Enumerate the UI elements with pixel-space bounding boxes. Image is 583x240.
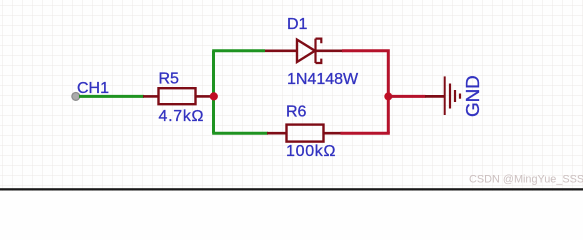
designator D1 — [287, 16, 308, 33]
value 100kΩ — [286, 143, 336, 160]
svg-text:R6: R6 — [286, 104, 307, 121]
node junction right — [384, 92, 392, 100]
designator R5 — [159, 71, 180, 88]
node junction left — [210, 92, 218, 100]
value 4.7kΩ — [159, 108, 205, 125]
diode D1 — [265, 39, 343, 63]
ground GND symbol — [445, 76, 460, 115]
svg-text:100kΩ: 100kΩ — [286, 143, 336, 160]
wire R6 to right corner — [341, 132, 390, 135]
net label CH1 — [77, 80, 109, 97]
svg-text:R5: R5 — [159, 71, 180, 88]
svg-text:CH1: CH1 — [77, 80, 109, 97]
wire CH1 to R5 — [79, 95, 144, 98]
bottom window edge — [0, 188, 583, 190]
wire junction to GND — [388, 95, 444, 98]
wire bottom branch to R6 — [212, 132, 268, 135]
resistor R6 — [267, 125, 342, 142]
svg-text:1N4148W: 1N4148W — [287, 71, 359, 88]
wire right vertical — [342, 51, 388, 133]
net label GND — [462, 75, 483, 117]
svg-text:GND: GND — [462, 75, 483, 117]
value 1N4148W — [287, 71, 359, 88]
svg-text:4.7kΩ: 4.7kΩ — [159, 108, 205, 125]
pin CH1 (port dot) — [72, 93, 80, 101]
wire top branch to D1 — [212, 49, 265, 52]
watermark — [469, 173, 583, 185]
svg-text:CSDN @MingYue_SSS: CSDN @MingYue_SSS — [469, 173, 583, 185]
svg-text:D1: D1 — [287, 16, 308, 33]
designator R6 — [286, 104, 307, 121]
resistor R5 — [143, 88, 210, 104]
wire vertical branch split — [212, 51, 215, 133]
